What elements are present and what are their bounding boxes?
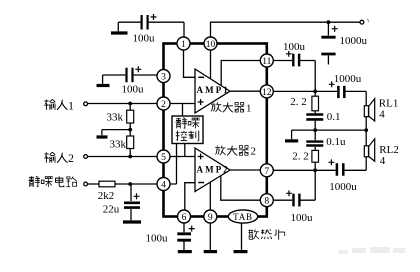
wire C1 to pin 1	[149, 22, 184, 37]
wire midpoint to ground G3	[102, 130, 130, 136]
capacitor C2 100u (pin3)	[122, 66, 145, 95]
capacitor C6 1000u (output coupling ch1)	[329, 73, 362, 98]
svg-text:1000u: 1000u	[340, 35, 368, 47]
wire C9 to speaker RL2	[344, 156, 366, 170]
svg-text:0.1u: 0.1u	[326, 136, 346, 148]
wire mute box to pin2 net	[182, 104, 184, 117]
svg-text:1: 1	[246, 102, 252, 114]
resistor R2 33k	[110, 136, 134, 157]
svg-text:100u: 100u	[291, 212, 314, 224]
pin 8	[260, 194, 273, 207]
svg-text:33k: 33k	[107, 112, 124, 124]
wire mute box to pin5 net	[184, 144, 186, 157]
svg-text:2. 2: 2. 2	[290, 96, 307, 108]
svg-text:8: 8	[264, 197, 269, 207]
svg-text:1: 1	[181, 40, 186, 50]
wire C10 to pin7 node	[301, 170, 316, 200]
svg-text:2: 2	[251, 146, 257, 158]
svg-text:AMP1: AMP1	[197, 85, 230, 95]
ground G4 (22u)	[123, 220, 141, 223]
wire common line	[292, 129, 367, 131]
wire AMP1 output to pin 12	[230, 90, 260, 92]
pin 5	[157, 150, 170, 163]
pin 1	[177, 37, 190, 50]
wire pin10 to V+ rail	[211, 22, 362, 37]
node rail/C4 junction	[327, 20, 331, 24]
svg-text:100u: 100u	[283, 41, 306, 53]
pin 4	[157, 178, 170, 191]
wire pin1 to AMP1 inverting input	[184, 50, 196, 77]
node 33k midpoint	[128, 128, 132, 132]
svg-text:100u: 100u	[146, 233, 169, 245]
svg-text:4: 4	[379, 109, 385, 121]
pin 3	[157, 70, 170, 83]
ground G5 (speaker common)	[285, 130, 298, 141]
wire AMP2 output to pin 7	[230, 169, 260, 171]
wire TAB to ground	[241, 223, 243, 250]
svg-text:0.1: 0.1	[327, 111, 341, 123]
resistor R1 33k	[107, 104, 134, 137]
wire input2 to pin 5	[88, 156, 158, 158]
capacitor C8 0.1u (zobel ch2)	[306, 130, 346, 150]
svg-text:12: 12	[262, 88, 272, 98]
wire RL2 to common node	[365, 130, 367, 146]
svg-text:1000u: 1000u	[329, 181, 357, 193]
svg-text:10: 10	[206, 40, 216, 50]
op-amp AMP1	[195, 69, 230, 113]
wire G2 to C2	[103, 74, 126, 76]
svg-text:2. 2: 2. 2	[292, 151, 309, 163]
wire G1 to C1	[118, 21, 140, 23]
svg-text:9: 9	[208, 213, 213, 223]
capacitor C5 100u (bootstrap ch1)	[283, 41, 306, 66]
wire C2 to pin 3	[134, 74, 158, 76]
svg-text:100u: 100u	[133, 33, 156, 45]
node pin12/bootstrap junction	[313, 90, 317, 94]
V+ tick mark	[368, 19, 369, 22]
node pin7/zobel junction	[313, 168, 317, 172]
wire C5 to pin12 node	[300, 61, 315, 92]
node speaker common junction	[364, 128, 368, 132]
label 放大器2	[215, 145, 256, 157]
ground G8 (TAB)	[234, 250, 248, 253]
IC U1 outline	[164, 44, 267, 217]
wire pin5 to AMP2 + input	[170, 156, 195, 158]
wire pin8 to AMP2 internal	[221, 176, 260, 200]
svg-text:33k: 33k	[110, 138, 127, 150]
wire input1 to pin 2	[88, 103, 158, 105]
wire pin2 to AMP1 + input	[170, 103, 195, 105]
svg-text:3: 3	[161, 73, 166, 83]
label 散热片 (heat sink)	[248, 229, 284, 239]
wire pin9 to ground	[209, 223, 211, 250]
capacitor C4 1000u (supply filter)	[321, 22, 367, 64]
wire pin12 to C6	[273, 90, 337, 92]
ground G2 (left, pin3 cap)	[97, 75, 110, 86]
ground G6 (C11)	[178, 250, 192, 253]
pin 12	[260, 85, 273, 98]
capacitor C7 0.1 (zobel ch1)	[306, 111, 340, 130]
wire mute box to pin4	[170, 144, 177, 185]
pin 9	[204, 210, 217, 223]
svg-text:2: 2	[68, 151, 74, 165]
wire pin11 to C5	[273, 60, 292, 62]
capacitor C1 100u (pin1 decoupling)	[133, 14, 157, 45]
wire RL1 to common node	[365, 116, 367, 130]
svg-text:6: 6	[182, 213, 187, 223]
wire pin9 to AMP2 bottom edge	[209, 182, 211, 210]
svg-text:7: 7	[264, 167, 269, 177]
pin 10	[204, 37, 217, 50]
capacitor C9 1000u (output coupling ch2)	[329, 159, 358, 192]
terminal V+	[360, 20, 364, 24]
wire pin8 to C10	[273, 199, 292, 201]
wire pin6 to AMP2 inverting input	[185, 183, 195, 210]
pin 2	[157, 97, 170, 110]
resistor R4 2.2 (zobel ch1)	[290, 91, 318, 110]
svg-text:1: 1	[68, 98, 74, 112]
svg-text:2: 2	[161, 100, 166, 110]
svg-text:4: 4	[380, 155, 386, 167]
pin 6	[178, 210, 191, 223]
wire C6 to speaker RL1	[345, 91, 366, 106]
resistor R5 2.2 (zobel ch2)	[292, 150, 318, 170]
pin TAB	[228, 210, 257, 223]
label 放大器1	[211, 102, 252, 114]
svg-text:2k2: 2k2	[98, 190, 115, 202]
mute control box 静噪控制	[172, 116, 203, 144]
wire R3 to pin 4	[115, 183, 157, 185]
resistor R3 2k2	[98, 181, 115, 202]
wire pin10 to AMP1 top edge	[210, 50, 212, 79]
watermark	[338, 247, 405, 254]
svg-text:1000u: 1000u	[334, 73, 362, 85]
svg-text:22u: 22u	[103, 204, 120, 216]
input terminal 输入2	[44, 151, 87, 165]
node zobel/common junction	[313, 128, 317, 132]
svg-text:AMP2: AMP2	[197, 165, 230, 175]
pin 11	[260, 54, 273, 67]
ground G1 (top-left)	[111, 22, 128, 33]
node mute/22u junction	[128, 182, 132, 186]
node input1/33k junction	[128, 102, 132, 106]
svg-text:4: 4	[161, 181, 166, 191]
terminal 静噪电路 (mute input)	[29, 176, 88, 187]
op-amp AMP2	[195, 148, 230, 192]
wire mute terminal to R3	[88, 183, 99, 185]
speaker RL2	[364, 139, 399, 167]
ground G3 (33k midpoint)	[97, 135, 108, 138]
ground G7 (pin9)	[204, 250, 217, 253]
svg-text:5: 5	[161, 153, 166, 163]
svg-text:11: 11	[262, 57, 271, 67]
input terminal 输入1	[44, 98, 87, 112]
capacitor C10 100u (bootstrap ch2)	[286, 190, 313, 224]
capacitor C3 22u	[103, 184, 140, 220]
svg-text:100u: 100u	[122, 83, 145, 95]
capacitor C11 100u (pin6)	[146, 223, 195, 250]
speaker RL1	[364, 98, 398, 121]
pin 7	[260, 164, 273, 177]
node input2/33k junction	[128, 155, 132, 159]
svg-text:TAB: TAB	[233, 212, 253, 222]
wire pin11 to AMP1 internal	[221, 61, 260, 86]
wire pin7 to C9	[273, 169, 335, 171]
